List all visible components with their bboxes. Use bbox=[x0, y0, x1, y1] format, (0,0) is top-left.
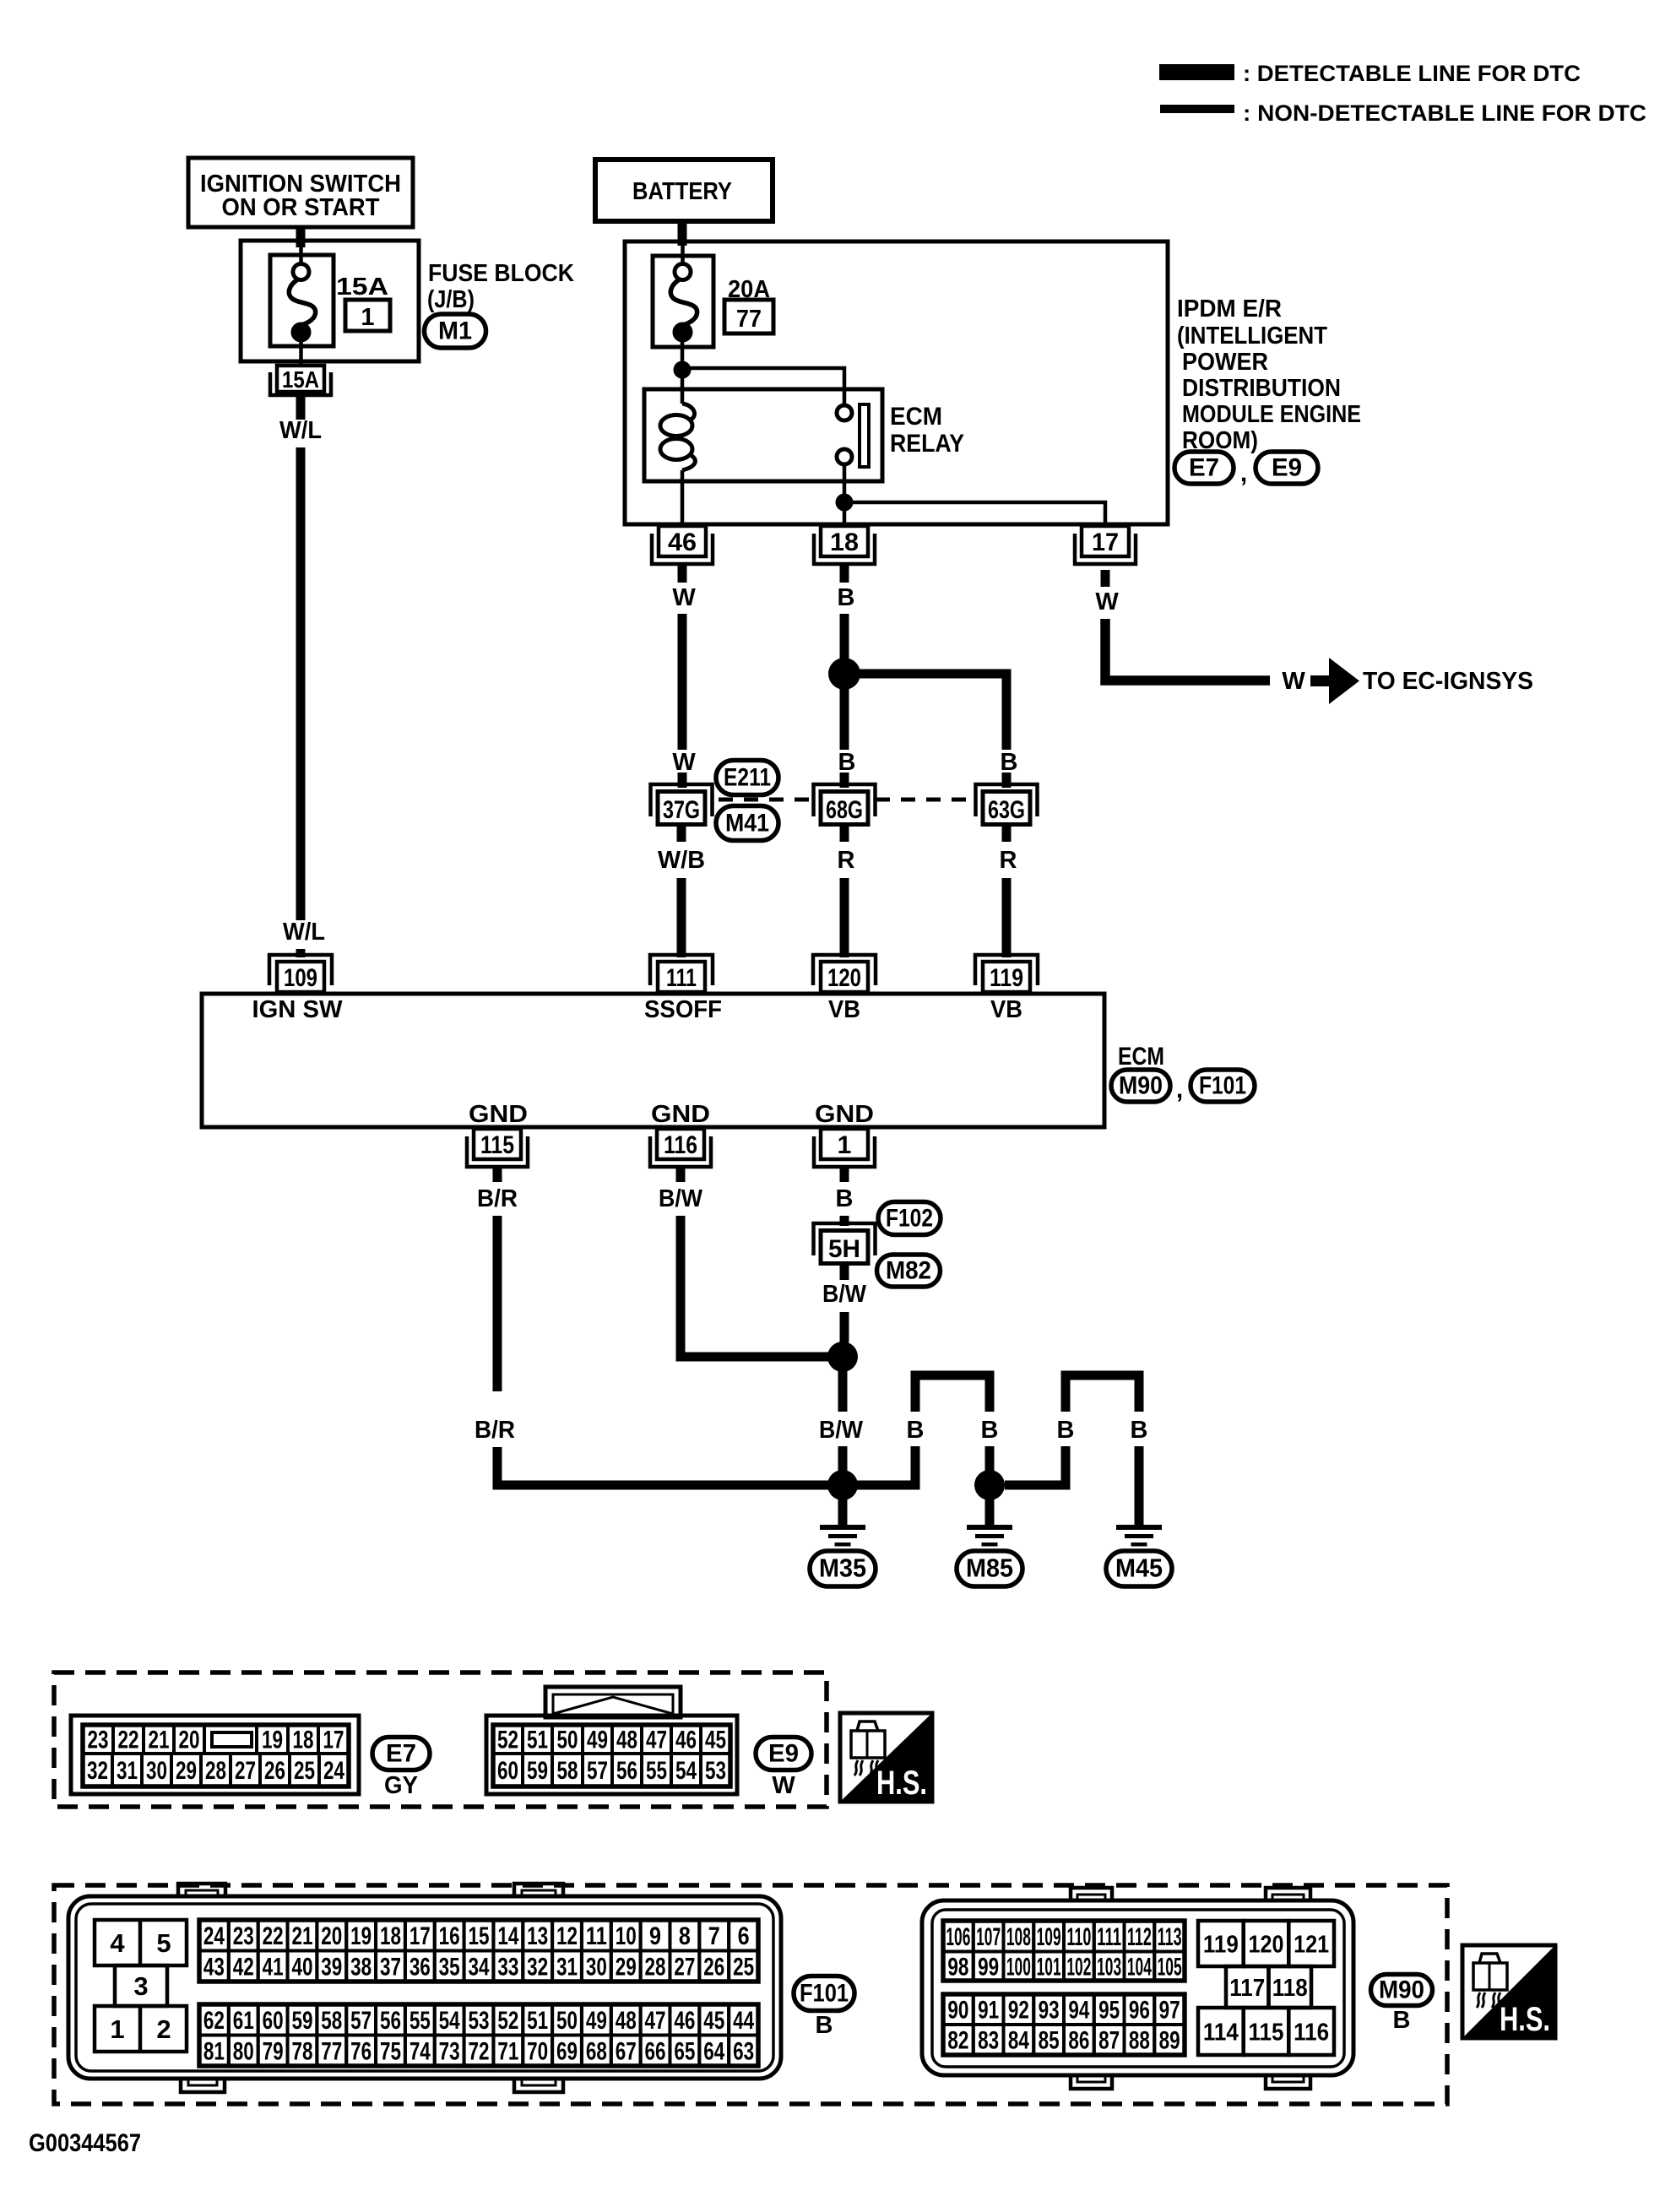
svg-text:86: 86 bbox=[1068, 2027, 1089, 2055]
junction dot on wire B bbox=[828, 658, 860, 690]
wire junction to pin 18 bbox=[843, 502, 847, 526]
wire B/W to junction dot bbox=[840, 1312, 849, 1342]
svg-text:E211: E211 bbox=[724, 764, 771, 792]
svg-text:38: 38 bbox=[350, 1953, 372, 1981]
svg-text:25: 25 bbox=[733, 1953, 754, 1981]
svg-text:55: 55 bbox=[646, 1757, 667, 1785]
svg-text:29: 29 bbox=[176, 1757, 197, 1785]
hoop2 right leg to ground M45 bbox=[1135, 1446, 1144, 1526]
svg-text:78: 78 bbox=[291, 2037, 312, 2065]
fuse 20A cartridge box bbox=[653, 256, 713, 347]
svg-text:28: 28 bbox=[645, 1953, 666, 1981]
wire R to ECM pin 119 bbox=[1002, 878, 1012, 957]
svg-text:117: 117 bbox=[1229, 1975, 1265, 2002]
svg-text:F101: F101 bbox=[1199, 1072, 1246, 1100]
svg-text:27: 27 bbox=[674, 1953, 695, 1981]
svg-text:41: 41 bbox=[263, 1953, 284, 1981]
svg-text:48: 48 bbox=[616, 2007, 637, 2035]
svg-text:54: 54 bbox=[439, 2007, 460, 2035]
ECM pin 111 bbox=[658, 962, 705, 992]
svg-text:99: 99 bbox=[978, 1953, 999, 1981]
svg-text:47: 47 bbox=[646, 1727, 667, 1754]
svg-text:M82: M82 bbox=[886, 1257, 931, 1285]
wire from battery to IPDM bbox=[678, 221, 687, 246]
svg-text:120: 120 bbox=[827, 964, 861, 992]
wire junction down bbox=[838, 1371, 848, 1412]
svg-text:B: B bbox=[838, 584, 855, 611]
svg-text:M41: M41 bbox=[725, 810, 769, 838]
wire relay contact to junction bbox=[843, 464, 847, 495]
ignition switch box bbox=[188, 158, 413, 227]
hoop2 left leg upper bbox=[1061, 1380, 1071, 1412]
connector F101 top tab 1 bbox=[178, 1884, 225, 1898]
battery box bbox=[595, 160, 773, 221]
svg-text:B: B bbox=[816, 2012, 833, 2039]
svg-text:76: 76 bbox=[350, 2037, 372, 2065]
dashed box connector views E7 E9 bbox=[54, 1673, 827, 1807]
svg-text:109: 109 bbox=[1037, 1923, 1061, 1951]
svg-text:W: W bbox=[1095, 588, 1119, 615]
svg-text:29: 29 bbox=[616, 1953, 637, 1981]
wire B/W stub below pin 116 bbox=[676, 1167, 686, 1182]
svg-text:83: 83 bbox=[978, 2027, 999, 2055]
svg-text:53: 53 bbox=[468, 2007, 489, 2035]
svg-text:33: 33 bbox=[497, 1953, 518, 1981]
svg-text:95: 95 bbox=[1098, 1997, 1120, 2025]
hoop1 right leg to junction bbox=[985, 1446, 995, 1471]
ECM pin 119 bbox=[983, 962, 1030, 992]
svg-text:46: 46 bbox=[674, 2007, 695, 2035]
svg-text:10: 10 bbox=[616, 1922, 637, 1950]
svg-text:60: 60 bbox=[263, 2007, 284, 2035]
svg-text:B/W: B/W bbox=[822, 1281, 867, 1308]
connector 15A bbox=[277, 366, 324, 392]
svg-text:66: 66 bbox=[645, 2037, 666, 2065]
connector M90 cells 117 118 bbox=[1226, 1966, 1269, 2008]
svg-text:IPDM E/R: IPDM E/R bbox=[1177, 295, 1282, 323]
svg-text:VB: VB bbox=[990, 996, 1022, 1023]
IPDM E/R box bbox=[625, 241, 1168, 524]
connector M90 oval label bbox=[1371, 1975, 1433, 2006]
ECM box bbox=[202, 994, 1104, 1127]
svg-text:(J/B): (J/B) bbox=[427, 286, 475, 313]
svg-text:57: 57 bbox=[350, 2007, 372, 2035]
fuse 15A cartridge box bbox=[270, 255, 334, 346]
svg-text:37G: 37G bbox=[663, 796, 700, 824]
svg-text:20: 20 bbox=[321, 1922, 342, 1950]
svg-text:R: R bbox=[838, 847, 855, 874]
svg-text:22: 22 bbox=[118, 1727, 139, 1754]
svg-text:18: 18 bbox=[380, 1922, 401, 1950]
svg-text:F102: F102 bbox=[886, 1205, 933, 1233]
svg-text:23: 23 bbox=[88, 1727, 109, 1754]
wire below 68G bbox=[840, 827, 849, 842]
svg-text:72: 72 bbox=[468, 2037, 489, 2065]
svg-text:12: 12 bbox=[556, 1922, 578, 1950]
svg-text:MODULE ENGINE: MODULE ENGINE bbox=[1182, 401, 1361, 428]
connector M82 oval bbox=[877, 1255, 941, 1287]
svg-text:E9: E9 bbox=[768, 1740, 799, 1768]
connector F101 pin grid row 43-25 bbox=[199, 1951, 229, 1982]
svg-text:64: 64 bbox=[703, 2037, 724, 2065]
relay coil bbox=[682, 404, 695, 420]
svg-text:110: 110 bbox=[1066, 1923, 1091, 1951]
svg-text:59: 59 bbox=[291, 2007, 312, 2035]
svg-text:B/R: B/R bbox=[475, 1417, 515, 1444]
wire W stub below pin 46 bbox=[678, 564, 687, 583]
connector F102 oval bbox=[878, 1202, 941, 1235]
svg-text:37: 37 bbox=[380, 1953, 401, 1981]
svg-text:46: 46 bbox=[668, 529, 697, 556]
svg-text:,: , bbox=[1176, 1076, 1183, 1103]
svg-text:105: 105 bbox=[1158, 1953, 1182, 1981]
svg-text:M85: M85 bbox=[966, 1553, 1013, 1583]
connector F101 pin grid row 81-63 bbox=[199, 2036, 229, 2067]
svg-text:F101: F101 bbox=[800, 1980, 849, 2008]
arrow to EC-IGNSYS bbox=[1310, 675, 1329, 686]
connector E7 oval label bbox=[372, 1738, 430, 1770]
wire below 37G bbox=[677, 827, 686, 842]
svg-text:31: 31 bbox=[556, 1953, 578, 1981]
hoop2 right leg upper bbox=[1135, 1380, 1144, 1412]
wire below 63G bbox=[1002, 827, 1012, 842]
H.S. marker icon lower bbox=[1462, 1945, 1555, 2038]
connector E7 pin grid row 2 bbox=[83, 1754, 112, 1786]
wire to ground junction bbox=[838, 1446, 848, 1471]
svg-text:85: 85 bbox=[1039, 2027, 1060, 2055]
svg-text:73: 73 bbox=[439, 2037, 460, 2065]
svg-text:113: 113 bbox=[1158, 1923, 1182, 1951]
svg-text:97: 97 bbox=[1159, 1997, 1180, 2025]
fuse number box 77 bbox=[724, 300, 773, 333]
connector E9 pin grid row 1 bbox=[493, 1725, 523, 1754]
connector M90 pin grid row 106-113 bbox=[943, 1921, 974, 1952]
IPDM pin 18 bbox=[821, 526, 868, 556]
svg-text:M90: M90 bbox=[1379, 1976, 1424, 2004]
svg-text:H.S.: H.S. bbox=[876, 1765, 927, 1802]
connector E9 oval label bbox=[756, 1738, 811, 1770]
svg-text:17: 17 bbox=[323, 1727, 344, 1754]
svg-text:53: 53 bbox=[705, 1757, 726, 1785]
svg-text:91: 91 bbox=[978, 1997, 999, 2025]
svg-text:46: 46 bbox=[675, 1727, 697, 1754]
connector M90 oval bbox=[1111, 1070, 1170, 1102]
svg-text:W: W bbox=[672, 749, 696, 776]
wire R to ECM pin 120 bbox=[840, 878, 849, 957]
svg-text:104: 104 bbox=[1127, 1953, 1152, 1981]
connector M90 lower grid frame bbox=[943, 1994, 1185, 2055]
junction dot below relay bbox=[836, 494, 854, 512]
hoop wire 2 top bbox=[1066, 1375, 1139, 1386]
connector E9 latch protrusion bbox=[545, 1687, 681, 1717]
svg-text:21: 21 bbox=[291, 1922, 312, 1950]
svg-text:B/R: B/R bbox=[477, 1185, 518, 1212]
wire fuse to junction bbox=[681, 341, 685, 363]
connector F101 oval label bbox=[794, 1976, 854, 2011]
svg-text:B: B bbox=[838, 749, 856, 776]
svg-text:G00344567: G00344567 bbox=[29, 2129, 141, 2157]
fuse block J/B box bbox=[241, 241, 419, 361]
connector E7 grid frame bbox=[83, 1725, 349, 1786]
wire W/L stub below connector 15A bbox=[296, 397, 306, 420]
wire W into 37G bbox=[678, 773, 687, 788]
svg-text:W: W bbox=[1282, 668, 1305, 695]
connector 63G bbox=[976, 784, 1038, 816]
svg-text:DISTRIBUTION: DISTRIBUTION bbox=[1182, 375, 1341, 402]
connector M90 cells 114 115 116 bbox=[1198, 2008, 1244, 2055]
svg-text:36: 36 bbox=[410, 1953, 431, 1981]
svg-text:23: 23 bbox=[233, 1922, 254, 1950]
wire B/R down bbox=[493, 1216, 502, 1391]
svg-text:55: 55 bbox=[410, 2007, 431, 2035]
svg-text:68: 68 bbox=[586, 2037, 607, 2065]
svg-text:26: 26 bbox=[703, 1953, 724, 1981]
svg-text:103: 103 bbox=[1097, 1953, 1121, 1981]
hoop wire 1 top bbox=[915, 1375, 990, 1386]
svg-text:4: 4 bbox=[110, 1928, 125, 1958]
ground symbol M35 bbox=[820, 1525, 865, 1530]
svg-text:27: 27 bbox=[235, 1757, 256, 1785]
svg-text:14: 14 bbox=[497, 1922, 518, 1950]
connector F101 key cells 1 2 bbox=[95, 2006, 187, 2052]
ground symbol M85 bbox=[967, 1525, 1012, 1530]
svg-text:1: 1 bbox=[110, 2014, 124, 2044]
svg-text:13: 13 bbox=[527, 1922, 548, 1950]
svg-text:42: 42 bbox=[233, 1953, 254, 1981]
svg-text:RELAY: RELAY bbox=[890, 430, 964, 458]
svg-text:52: 52 bbox=[497, 2007, 518, 2035]
svg-text:63: 63 bbox=[733, 2037, 754, 2065]
svg-text:45: 45 bbox=[703, 2007, 724, 2035]
svg-text:7: 7 bbox=[708, 1922, 720, 1950]
connector M1 oval bbox=[425, 314, 486, 348]
svg-text:54: 54 bbox=[675, 1757, 697, 1785]
svg-text:B: B bbox=[1393, 2007, 1411, 2034]
svg-text:R: R bbox=[1000, 847, 1017, 874]
wire W/B to ECM pin 111 bbox=[677, 878, 686, 957]
svg-text:98: 98 bbox=[947, 1953, 968, 1981]
svg-text:15A: 15A bbox=[336, 274, 388, 301]
svg-text:32: 32 bbox=[87, 1757, 108, 1785]
svg-text:109: 109 bbox=[284, 964, 317, 992]
svg-text:5H: 5H bbox=[828, 1235, 860, 1263]
svg-text:107: 107 bbox=[976, 1923, 1001, 1951]
legend thick bar: detectable line for DTC bbox=[1159, 64, 1234, 80]
connector F101 lower grid frame bbox=[199, 2004, 758, 2066]
connector E7 face view body bbox=[71, 1716, 359, 1794]
connector M90 pin grid row 98-105 bbox=[943, 1952, 974, 1982]
svg-text:118: 118 bbox=[1272, 1975, 1308, 2002]
svg-text:SSOFF: SSOFF bbox=[644, 996, 722, 1023]
svg-text:30: 30 bbox=[146, 1757, 167, 1785]
svg-text:B/W: B/W bbox=[819, 1417, 864, 1444]
svg-text:8: 8 bbox=[679, 1922, 691, 1950]
ECM pin 109 bbox=[277, 962, 324, 992]
wire B down to junction bbox=[840, 614, 849, 660]
wire junction to ground M85 bbox=[985, 1499, 995, 1526]
svg-text:FUSE BLOCK: FUSE BLOCK bbox=[428, 260, 574, 287]
svg-text:17: 17 bbox=[410, 1922, 431, 1950]
connector F101 pin grid row 62-44 bbox=[199, 2004, 229, 2036]
ECM pin 115 bbox=[474, 1129, 521, 1159]
svg-text:24: 24 bbox=[323, 1757, 344, 1785]
svg-text:: NON-DETECTABLE LINE FOR DTC: : NON-DETECTABLE LINE FOR DTC bbox=[1243, 100, 1646, 126]
connector F101 key cell 3 bbox=[115, 1965, 167, 2006]
svg-text:E7: E7 bbox=[1189, 454, 1219, 482]
svg-text:M45: M45 bbox=[1115, 1553, 1163, 1583]
connector F101 bottom tab 1 bbox=[181, 2077, 225, 2092]
svg-text:18: 18 bbox=[293, 1727, 314, 1754]
hoop1 right leg upper bbox=[985, 1380, 995, 1412]
connector F101 key cells 4 5 bbox=[95, 1920, 187, 1965]
wire W/L into pin 109 bbox=[296, 949, 306, 957]
wire junction to pin 17 bbox=[853, 502, 1105, 526]
ECM pin 116 bbox=[657, 1129, 704, 1159]
svg-text:51: 51 bbox=[527, 2007, 548, 2035]
dashed link 37G to 68G bbox=[719, 798, 813, 802]
connector E7 key slot bbox=[212, 1732, 252, 1747]
connector F101 top tab 2 bbox=[514, 1884, 563, 1898]
wire from ignition switch to fuse block bbox=[296, 227, 306, 247]
H.S. marker icon upper bbox=[840, 1713, 932, 1802]
svg-text:65: 65 bbox=[674, 2037, 695, 2065]
svg-text:17: 17 bbox=[1092, 529, 1119, 556]
svg-text:84: 84 bbox=[1008, 2027, 1029, 2055]
svg-text:TO EC-IGNSYS: TO EC-IGNSYS bbox=[1363, 668, 1533, 695]
connector 68G bbox=[814, 784, 876, 816]
svg-text:70: 70 bbox=[527, 2037, 548, 2065]
dashed box connector views F101 M90 bbox=[54, 1885, 1447, 2104]
connector F101 face view body bbox=[68, 1896, 781, 2079]
hoop1 left leg upper bbox=[911, 1380, 920, 1412]
svg-text:75: 75 bbox=[380, 2037, 401, 2065]
svg-text:,: , bbox=[1240, 459, 1247, 487]
svg-text:M1: M1 bbox=[438, 317, 472, 345]
wire W down to connector 37G bbox=[678, 614, 687, 750]
svg-text:GY: GY bbox=[384, 1772, 418, 1799]
svg-text:ON OR START: ON OR START bbox=[222, 194, 380, 221]
connector M41 oval bbox=[716, 806, 778, 841]
svg-text:16: 16 bbox=[439, 1922, 460, 1950]
svg-text:B/W: B/W bbox=[659, 1185, 703, 1212]
svg-text:115: 115 bbox=[480, 1131, 514, 1159]
svg-text:28: 28 bbox=[205, 1757, 226, 1785]
svg-text:88: 88 bbox=[1129, 2027, 1150, 2055]
dashed link 68G to 63G bbox=[876, 798, 975, 802]
wire B/R elbow to ground junction bbox=[497, 1447, 844, 1485]
svg-text:43: 43 bbox=[203, 1953, 225, 1981]
svg-text:POWER: POWER bbox=[1182, 349, 1268, 376]
svg-text:39: 39 bbox=[321, 1953, 342, 1981]
connector M90 top tab 1 bbox=[1071, 1888, 1112, 1902]
svg-text:3: 3 bbox=[133, 1971, 148, 2001]
wire W elbow to EC-IGNSYS bbox=[1105, 619, 1270, 680]
connector 37G bbox=[651, 784, 713, 816]
connector 5H bbox=[814, 1223, 876, 1255]
relay contact upper circle bbox=[837, 405, 852, 420]
svg-text:15A: 15A bbox=[282, 366, 319, 393]
connector F101 bottom tab 2 bbox=[514, 2077, 563, 2092]
wire B from junction to 68G bbox=[840, 689, 849, 750]
wire from fuse to connector 15A bbox=[299, 341, 303, 366]
svg-text:15: 15 bbox=[468, 1922, 489, 1950]
svg-text:1: 1 bbox=[838, 1131, 852, 1159]
svg-text:87: 87 bbox=[1098, 2027, 1120, 2055]
svg-text:61: 61 bbox=[233, 2007, 254, 2035]
svg-text:101: 101 bbox=[1037, 1953, 1061, 1981]
svg-text:51: 51 bbox=[527, 1727, 548, 1754]
svg-text:M90: M90 bbox=[1119, 1072, 1163, 1100]
svg-text:100: 100 bbox=[1006, 1953, 1031, 1981]
svg-text:89: 89 bbox=[1159, 2027, 1180, 2055]
svg-text:77: 77 bbox=[736, 306, 762, 333]
svg-text:112: 112 bbox=[1127, 1923, 1152, 1951]
connector E9 face view body bbox=[486, 1716, 737, 1794]
svg-text:49: 49 bbox=[586, 2007, 607, 2035]
svg-text:77: 77 bbox=[321, 2037, 342, 2065]
svg-text:1: 1 bbox=[361, 304, 374, 331]
svg-text:B: B bbox=[836, 1185, 854, 1212]
connector E7 pin grid row 1 bbox=[83, 1725, 113, 1754]
svg-text:111: 111 bbox=[666, 964, 697, 992]
svg-text:79: 79 bbox=[263, 2037, 284, 2065]
IPDM pin 46 bbox=[659, 526, 706, 556]
connector M90 cells 119 120 121 bbox=[1198, 1921, 1244, 1966]
wire B/W elbow to junction bbox=[681, 1216, 841, 1357]
svg-text:50: 50 bbox=[557, 1727, 578, 1754]
wire relay coil to pin 46 bbox=[681, 470, 685, 526]
svg-text:24: 24 bbox=[203, 1922, 225, 1950]
svg-text:ECM: ECM bbox=[890, 403, 942, 431]
hoop2 left leg to junction bbox=[1005, 1446, 1066, 1485]
svg-text:120: 120 bbox=[1249, 1932, 1284, 1959]
wire B stub below pin 18 bbox=[840, 564, 849, 583]
svg-text:47: 47 bbox=[645, 2007, 666, 2035]
wire battery feed inside IPDM bbox=[681, 246, 685, 264]
svg-text:GND: GND bbox=[815, 1101, 874, 1128]
relay contact lower circle bbox=[837, 449, 852, 464]
wire W/L down to ECM pin 109 bbox=[296, 447, 306, 920]
wire into fuse bbox=[299, 247, 303, 264]
svg-text:IGN SW: IGN SW bbox=[252, 996, 344, 1023]
svg-text:82: 82 bbox=[947, 2027, 968, 2055]
svg-text:20: 20 bbox=[179, 1727, 200, 1754]
svg-text:114: 114 bbox=[1203, 2020, 1239, 2047]
connector M90 bottom tab 2 bbox=[1266, 2074, 1310, 2089]
svg-text:9: 9 bbox=[649, 1922, 661, 1950]
svg-text:W/L: W/L bbox=[279, 417, 322, 444]
svg-text:57: 57 bbox=[587, 1757, 608, 1785]
wire below 5H bbox=[840, 1265, 849, 1280]
svg-text:119: 119 bbox=[1203, 1932, 1239, 1959]
ECM pin 120 bbox=[821, 962, 868, 992]
svg-text:93: 93 bbox=[1039, 1997, 1060, 2025]
svg-text:90: 90 bbox=[947, 1997, 968, 2025]
connector E7 oval bbox=[1174, 452, 1234, 484]
svg-text:21: 21 bbox=[149, 1727, 170, 1754]
svg-text:GND: GND bbox=[651, 1101, 710, 1128]
connector E9 oval bbox=[1256, 452, 1318, 484]
svg-text:45: 45 bbox=[705, 1727, 726, 1754]
connector E9 pin grid row 2 bbox=[493, 1754, 523, 1786]
ECM pin 1 bbox=[821, 1129, 868, 1159]
svg-text:19: 19 bbox=[350, 1922, 372, 1950]
svg-text:94: 94 bbox=[1068, 1997, 1089, 2025]
svg-text:116: 116 bbox=[664, 1131, 697, 1159]
svg-text:56: 56 bbox=[616, 1757, 637, 1785]
svg-text:6: 6 bbox=[738, 1922, 750, 1950]
connector M90 top tab 2 bbox=[1266, 1888, 1310, 1902]
